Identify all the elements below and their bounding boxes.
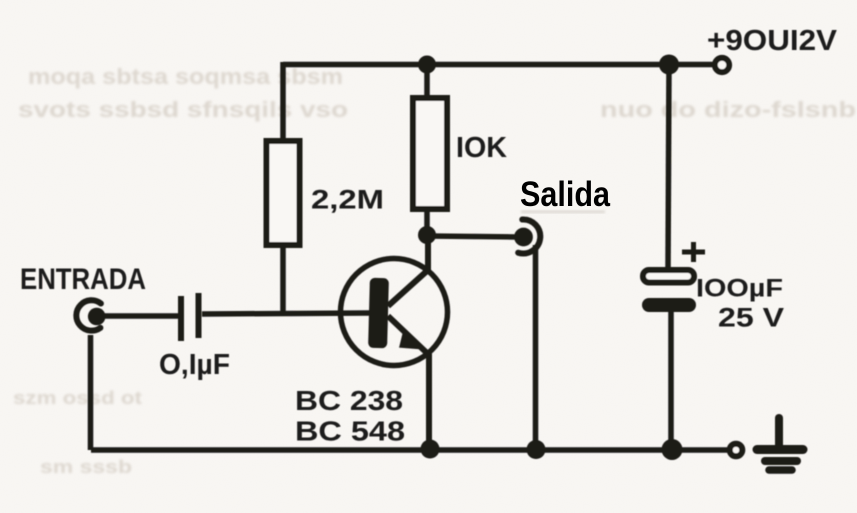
wire: bottom ground rail bbox=[91, 447, 730, 453]
transistor Q1 circle bbox=[341, 259, 448, 366]
node: collector junction bbox=[418, 226, 436, 244]
node: capacitor branch junction on ground rail bbox=[662, 439, 683, 460]
svg-text:Salida: Salida bbox=[520, 174, 610, 214]
capacitor C2 100uF bottom plate bbox=[642, 298, 696, 312]
node: junction top of output branch bbox=[659, 55, 679, 75]
node: junction top of 10K bbox=[418, 56, 436, 74]
terminal: Salida connector dot bbox=[514, 228, 533, 247]
wire: collector to Salida terminal bbox=[427, 236, 519, 237]
svg-text:+9OUI2V: +9OUI2V bbox=[707, 25, 837, 57]
ghost bleed-through text row 3 top right bbox=[600, 97, 856, 122]
svg-text:2,2M: 2,2M bbox=[311, 185, 384, 215]
ghost bleed-through text row 2 bbox=[18, 97, 348, 122]
transistor Q1 emitter wire bbox=[388, 316, 429, 450]
wire: top supply rail bbox=[283, 62, 718, 68]
transistor Q1 emitter arrowhead bbox=[400, 331, 420, 349]
wire: 2.2M bottom lead bbox=[280, 245, 286, 314]
transistor Q1 collector wire bbox=[388, 233, 428, 306]
wire: supply branch down to capacitor bbox=[668, 64, 669, 270]
wire: capacitor to base bbox=[202, 313, 370, 314]
svg-text:moqa sbtsa soqmsa sbsm: moqa sbtsa soqmsa sbsm bbox=[28, 64, 343, 89]
wire: Salida down lead bbox=[533, 245, 539, 450]
capacitor C2 100uF top plate bbox=[643, 270, 694, 283]
node: Salida branch junction on ground rail bbox=[527, 440, 546, 459]
svg-text:25 V: 25 V bbox=[718, 303, 784, 333]
svg-text:BC 548: BC 548 bbox=[295, 416, 405, 447]
node: emitter junction on ground rail bbox=[421, 440, 440, 459]
ghost erased label mark under Salida bbox=[521, 211, 605, 214]
wire: capacitor to ground rail bbox=[668, 312, 674, 450]
wire: 10K bottom lead bbox=[424, 209, 430, 235]
resistor R2 10K body bbox=[413, 98, 447, 209]
svg-text:svots ssbsd sfnsqils vso: svots ssbsd sfnsqils vso bbox=[18, 97, 348, 122]
svg-text:szm ossd ot: szm ossd ot bbox=[13, 388, 142, 408]
wire: input to capacitor bbox=[103, 313, 178, 319]
transistor Q1 base bar bbox=[368, 278, 389, 348]
svg-text:ENTRADA: ENTRADA bbox=[20, 263, 146, 296]
ground symbol bar 2 bbox=[765, 457, 797, 465]
terminal: Salida connector arc bbox=[518, 219, 540, 253]
capacitor C1 0,1uF right plate bbox=[196, 293, 202, 338]
ground symbol bar 3 bbox=[769, 466, 792, 474]
wire: 10K top lead bbox=[424, 64, 430, 98]
svg-text:O,IµF: O,IµF bbox=[159, 349, 230, 381]
svg-text:BC 238: BC 238 bbox=[295, 385, 403, 416]
svg-text:IOK: IOK bbox=[456, 132, 507, 164]
terminal: ENTRADA input connector dot bbox=[88, 308, 106, 326]
ground symbol bar 1 bbox=[757, 445, 803, 454]
terminal: +V open circle bbox=[715, 58, 729, 72]
resistor R1 2,2M body bbox=[267, 141, 300, 245]
svg-text:nuo do dizo-fslsnb: nuo do dizo-fslsnb bbox=[600, 97, 856, 122]
label + polarity bbox=[682, 242, 705, 262]
wire: 2.2M top lead bbox=[280, 62, 286, 141]
ghost bleed-through text row 1 bbox=[28, 64, 343, 89]
wire: ENTRADA down lead bbox=[88, 335, 94, 450]
capacitor C1 0,1uF left plate bbox=[178, 296, 184, 341]
terminal: ground open circle bbox=[730, 444, 743, 457]
svg-text:IOOµF: IOOµF bbox=[696, 275, 783, 303]
ghost bleed-through text bottom left bbox=[13, 388, 142, 477]
terminal: ENTRADA input connector arc bbox=[76, 300, 101, 330]
svg-text:sm sssb: sm sssb bbox=[40, 457, 132, 477]
ground symbol stub bbox=[775, 418, 783, 446]
